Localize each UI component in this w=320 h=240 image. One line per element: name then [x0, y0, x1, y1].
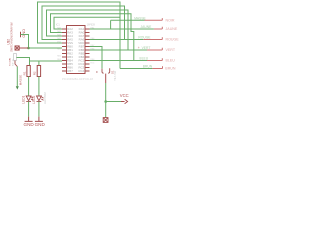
svg-text:TILT-SW: TILT-SW — [113, 70, 117, 81]
wire ROUGE row — [90, 39, 144, 41]
IC U1 right pin names — [78, 27, 84, 73]
wire BRUN row — [120, 68, 152, 70]
wire MASSE jog — [110, 20, 112, 29]
junction node gnd-pad — [27, 47, 30, 50]
pin wire NOIR — [145, 18, 163, 20]
pin wire BLEU — [147, 58, 162, 60]
switch U$2 body — [14, 54, 17, 61]
wire net2 nest to ROUGE feed — [42, 6, 125, 40]
wire gnd to junction — [21, 35, 29, 49]
ground symbol left rotated bar — [20, 32, 22, 37]
svg-text:GND: GND — [35, 122, 46, 127]
svg-text:GND: GND — [24, 122, 35, 127]
pin wire BRUN — [152, 66, 162, 68]
wire IC pin to switch S1 — [90, 47, 103, 69]
svg-text:R1: R1 — [23, 71, 27, 75]
svg-text:ROUGE: ROUGE — [166, 38, 180, 42]
LED2 — [37, 96, 44, 101]
svg-text:SWITCH-MOMENTARY-5M: SWITCH-MOMENTARY-5M — [11, 22, 14, 51]
pad U$3 crossed square — [15, 46, 19, 50]
svg-text:NOIR: NOIR — [166, 19, 175, 23]
wire BLEU row — [90, 60, 148, 62]
IC U1 right pin stubs — [85, 29, 90, 71]
IC U1 left pin names — [67, 27, 73, 73]
ground arrow symbol — [16, 86, 19, 89]
wire switch pin to resistor R1 — [17, 58, 30, 66]
wire switch to gnd arrow — [16, 67, 18, 87]
resistor R2 — [37, 66, 40, 77]
svg-text:R2: R2 — [32, 71, 36, 75]
junction node VCC — [104, 100, 107, 103]
IC U1 left pin stubs — [62, 29, 67, 71]
svg-text:BRUN: BRUN — [143, 65, 153, 69]
ground GND2 — [35, 117, 43, 122]
wire branch to resistor R2 — [38, 61, 40, 66]
LED1 — [26, 96, 33, 101]
svg-text:JAUNE: JAUNE — [141, 25, 153, 29]
wire switch S1 to VCC node — [105, 83, 107, 102]
svg-text:B3F-10: B3F-10 — [13, 58, 15, 66]
wire LED2 to GND2 — [38, 101, 40, 116]
wire net1 nest to BRUN — [38, 2, 121, 69]
wire VERT row — [90, 49, 148, 51]
pad U$4 crossed square — [103, 118, 108, 123]
wire R1 to LED1 — [28, 77, 30, 97]
wire junction to IC — [29, 47, 63, 49]
wire pad to junction — [19, 47, 28, 49]
pin wire JAUNE — [154, 27, 162, 29]
svg-text:PIC16F628A-04/P DIL18: PIC16F628A-04/P DIL18 — [62, 77, 93, 81]
VCC supply symbol arrow — [121, 99, 128, 103]
svg-text:+: + — [138, 46, 140, 50]
wire net3 nest to VERT feed — [47, 10, 129, 50]
svg-text:RB2: RB2 — [57, 55, 62, 57]
IC U1 outside left pin labels — [57, 26, 62, 61]
IC U1 outside right pin labels — [91, 26, 96, 64]
svg-text:BLEU: BLEU — [166, 59, 176, 63]
switch S1 left contact — [102, 69, 104, 73]
switch S1 right contact — [108, 68, 110, 73]
pin wire ROUGE — [143, 37, 162, 39]
svg-text:VERT: VERT — [142, 46, 151, 50]
svg-text:RC1: RC1 — [91, 62, 96, 64]
svg-text:MASSE: MASSE — [19, 75, 23, 86]
svg-text:MASSE: MASSE — [134, 16, 146, 20]
ground GND1 — [25, 117, 33, 122]
switch U$2 lower pin — [15, 61, 17, 67]
svg-text:VSS: VSS — [57, 41, 62, 43]
svg-text:BLEU: BLEU — [140, 57, 149, 61]
wire branch to IC pin — [30, 60, 63, 62]
svg-text:16F628: 16F628 — [87, 23, 96, 26]
svg-text:IC1: IC1 — [56, 23, 60, 26]
wire net4 nest to BLEU feed with jog — [51, 14, 134, 61]
svg-text:TO-5MM: TO-5MM — [10, 58, 12, 66]
svg-text:JAUNE: JAUNE — [166, 27, 178, 31]
wire R2 to LED2 — [38, 77, 40, 97]
svg-text:GND: GND — [21, 29, 26, 38]
IC U1 body — [67, 26, 86, 74]
switch S1 bottom pin — [105, 74, 107, 83]
svg-text:RB0: RB0 — [57, 48, 62, 50]
wire LED1 to GND1 — [28, 101, 30, 116]
wire JAUNE row — [90, 28, 154, 30]
svg-text:BRUN: BRUN — [165, 67, 176, 71]
resistor R1 — [27, 66, 30, 77]
svg-text:ROUGE: ROUGE — [138, 36, 151, 40]
svg-text:LED1: LED1 — [22, 95, 26, 103]
svg-text:LED5MM: LED5MM — [43, 92, 47, 104]
wire VCC node to pad — [105, 102, 107, 118]
wire to VCC symbol — [106, 101, 121, 103]
svg-text:VCC: VCC — [120, 93, 129, 98]
pin wire VERT — [147, 48, 162, 50]
switch S1 left tick — [96, 71, 98, 73]
svg-text:RB7: RB7 — [67, 69, 73, 73]
wire MASSE row — [111, 19, 145, 21]
svg-text:RC4: RC4 — [79, 69, 85, 73]
wire net5 nest inner — [54, 17, 120, 29]
svg-text:VERT: VERT — [166, 48, 176, 52]
svg-text:LED2: LED2 — [32, 95, 36, 103]
